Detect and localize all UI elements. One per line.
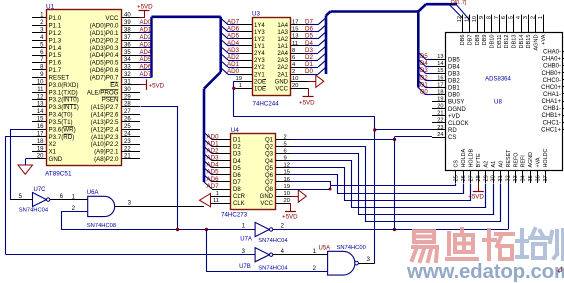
svg-text:SN74HC04: SN74HC04 — [19, 208, 49, 214]
svg-text:Q8: Q8 — [265, 187, 274, 193]
svg-text:D4: D4 — [233, 159, 241, 165]
svg-text:P3.3(INT1): P3.3(INT1) — [49, 104, 79, 111]
wire D1 to U8 — [426, 87, 433, 89]
U8 left pin 19 (^BUSY^) — [432, 101, 446, 103]
svg-text:6: 6 — [501, 16, 507, 19]
wire D2 to U8 — [426, 80, 433, 82]
svg-text:(A13)P2.5: (A13)P2.5 — [91, 119, 119, 126]
wire U1 P2.7 (A15) to decode gates — [141, 107, 178, 230]
bus vertical at U4 inputs — [203, 89, 206, 182]
svg-text:2OE: 2OE — [254, 79, 266, 85]
svg-text:(A11)P2.3: (A11)P2.3 — [91, 134, 119, 141]
svg-text:Q5: Q5 — [265, 166, 274, 172]
svg-text:2A1: 2A1 — [277, 72, 288, 78]
svg-text:5: 5 — [19, 194, 23, 200]
+5VD power symbol at U1 VCC pin 40 — [140, 17, 144, 19]
wire U4 Q5 to U8 bottom pin — [291, 168, 471, 201]
U8 top pin 11 (DB7) — [469, 15, 471, 33]
svg-text:DB0: DB0 — [448, 93, 460, 99]
svg-text:6: 6 — [40, 50, 44, 56]
U4 pin 3 (D1) — [212, 139, 231, 141]
wire U3 output D0 — [308, 74, 318, 76]
svg-text:10: 10 — [472, 16, 478, 22]
U8 bottom pin 28 (BYTE) — [478, 170, 480, 183]
junction A15 net / NAND input branch — [205, 228, 208, 231]
U1 pin 24 ((A11)P2.3) — [121, 136, 140, 138]
svg-text:1OE: 1OE — [254, 86, 266, 92]
U1 GND pin 20 wire — [26, 158, 33, 160]
U1 pin 1 (P1.0) — [32, 17, 46, 19]
svg-text:AD0: AD0 — [207, 133, 220, 140]
wire D3 to U8 — [426, 73, 433, 75]
svg-text:RESET: RESET — [506, 149, 512, 168]
svg-text:D4: D4 — [420, 61, 428, 67]
svg-text:AGND: AGND — [528, 152, 534, 168]
wire WR to U7C input — [10, 199, 33, 201]
svg-text:CHC1-: CHC1- — [543, 120, 561, 126]
junction Q1/CS — [393, 138, 396, 141]
bus entry AD6 (U4 input) — [204, 175, 212, 182]
bus entry AD7 (U4 input) — [204, 182, 212, 189]
svg-text:AD1: AD1 — [227, 61, 240, 68]
svg-text:DB15: DB15 — [526, 35, 532, 49]
U3 pin 19 (^2OE^) — [239, 81, 253, 83]
U8 top pin 6 (DB12) — [506, 15, 508, 33]
svg-text:D8: D8 — [233, 187, 241, 193]
svg-text:Q1: Q1 — [265, 138, 274, 144]
U8 top pin 2 (AGND) — [535, 15, 537, 33]
svg-text:6: 6 — [292, 55, 295, 61]
wire U4 Q7 to U8 bottom pin — [291, 182, 456, 186]
U3 pin 7 (2Y2) — [239, 67, 253, 69]
svg-text:GND: GND — [260, 194, 274, 200]
bus entry AD4 (U4 input) — [204, 161, 212, 168]
wire U7B output to U5A input 1 — [273, 254, 328, 256]
svg-text:2: 2 — [284, 134, 287, 140]
U8 bottom pin wires 29-31 going left — [445, 184, 486, 208]
svg-text:CLR: CLR — [233, 194, 246, 200]
svg-text:36: 36 — [124, 42, 131, 48]
wire U1 P0.3 net AD3 — [140, 47, 152, 49]
U1 pin 33 ((AD6)P0.6) — [121, 69, 140, 71]
wire U1 P0.2 net AD2 — [140, 40, 152, 42]
svg-text:DGND: DGND — [448, 107, 466, 113]
svg-text:10: 10 — [37, 80, 44, 86]
svg-text:23: 23 — [124, 139, 131, 145]
U8 right pin (CHB0+) — [563, 72, 564, 74]
U1 pin 12 (P3.2(^INT0^)) — [32, 99, 46, 101]
svg-text:AD3: AD3 — [140, 42, 152, 48]
U4 pin 2 (Q1) — [276, 139, 291, 141]
U3 pin 4 (2A2) — [290, 67, 308, 69]
svg-text:U3: U3 — [252, 11, 260, 18]
svg-text:A0: A0 — [498, 161, 504, 168]
bus D[0..7] corner diagonal — [326, 12, 331, 16]
svg-text:PSEN: PSEN — [102, 97, 119, 104]
svg-text:(AD1)P0.1: (AD1)P0.1 — [90, 30, 119, 37]
svg-text:9: 9 — [479, 16, 485, 19]
svg-text:9: 9 — [284, 156, 287, 162]
wire to U8 CS pin — [395, 136, 433, 138]
U8 bottom pin 27 (HOLDB) — [470, 170, 472, 183]
wire U3 output D3 — [308, 53, 318, 55]
wire D4 to U8 — [426, 66, 433, 68]
svg-text:HOLDB: HOLDB — [469, 149, 475, 168]
svg-text:21: 21 — [437, 111, 443, 117]
U8 left pin 14 (DB4) — [432, 66, 446, 68]
wire AD7 to U3 — [228, 24, 239, 26]
svg-text:(A12)P2.4: (A12)P2.4 — [91, 126, 119, 133]
U8 top pin 3 (DB15) — [528, 15, 530, 33]
svg-text:+5VD: +5VD — [299, 99, 315, 106]
bus entry D7 (U3 output) — [318, 18, 326, 25]
svg-text:17: 17 — [37, 131, 44, 137]
wire U3 output D5 — [308, 38, 318, 40]
U8 bottom pin 30 (A1) — [493, 170, 495, 183]
svg-text:11: 11 — [292, 41, 298, 47]
wire U7A output to U8 pin (RD A0 net) — [273, 229, 508, 231]
junction A15 net / P2.7 — [176, 228, 179, 231]
svg-text:+VD: +VD — [448, 114, 461, 120]
U1 pin 30 (ALE/^PROG^) — [121, 92, 140, 94]
svg-text:1A1: 1A1 — [277, 44, 288, 50]
svg-text:32: 32 — [506, 175, 512, 181]
U1 pin 8 (P1.7) — [32, 69, 46, 71]
+5VD power symbol at U8 pin 28 — [478, 183, 480, 192]
svg-text:40: 40 — [124, 13, 131, 19]
wire U1 P3.6 WR down-left — [11, 130, 33, 200]
inverter U7A 74HC04 — [255, 222, 269, 236]
svg-text:4: 4 — [516, 16, 522, 19]
svg-text:1Y3: 1Y3 — [254, 30, 265, 36]
bus entry AD5 (U3 input) — [221, 32, 228, 39]
svg-text:11: 11 — [37, 87, 44, 93]
bus entry AD5 (U4 input) — [204, 168, 212, 175]
bus entry D3 (U3 output) — [318, 46, 326, 53]
wire U3 output D6 — [308, 31, 318, 33]
svg-text:27: 27 — [468, 175, 474, 181]
U3 pin 10 (GND) — [290, 81, 308, 83]
svg-text:19: 19 — [284, 184, 290, 190]
U8 right pin (CHB0-) — [563, 65, 564, 67]
U8 bottom pin 31 (A0) — [500, 170, 502, 183]
svg-text:DB5: DB5 — [448, 57, 460, 63]
bus entry AD3 (U3 input) — [221, 47, 228, 54]
svg-text:(AD5)P0.5: (AD5)P0.5 — [90, 60, 119, 67]
svg-text:X1: X1 — [49, 149, 57, 156]
U8 bottom pin 29 (A2) — [485, 170, 487, 183]
U1 pin 2 (P1.1) — [32, 25, 46, 27]
svg-text:EA: EA — [110, 82, 119, 89]
U8 bottom pin 26 (HOLDA) — [463, 170, 465, 183]
wire U3 output enables 2OE/1OE tied — [234, 81, 239, 83]
U4 pin 1 (^CLR^) — [211, 196, 231, 198]
U4 pin 13 (D5) — [212, 167, 231, 169]
U8 right pin (CHA0-) — [563, 51, 564, 53]
svg-text:D6: D6 — [305, 26, 313, 33]
svg-text:P3.1(TXD): P3.1(TXD) — [49, 89, 78, 96]
U8 right pin (CHA0+) — [563, 58, 564, 60]
svg-text:1Y1: 1Y1 — [254, 44, 265, 50]
svg-text:3: 3 — [523, 16, 529, 19]
U3 pin 16 (1Y2) — [239, 38, 253, 40]
U1 pin 6 (P1.5) — [32, 55, 46, 57]
svg-text:Q3: Q3 — [265, 152, 274, 158]
wire U4 Q8 join — [291, 189, 331, 191]
svg-text:16: 16 — [284, 177, 290, 183]
svg-text:AD7: AD7 — [207, 183, 220, 190]
svg-text:D5: D5 — [305, 33, 313, 40]
bus entry D5 (U3 output) — [318, 32, 326, 39]
wire U5A output to RD net vertical — [358, 263, 374, 265]
svg-text:X2: X2 — [49, 141, 57, 148]
U8 right pin (CHB1+) — [563, 115, 564, 117]
svg-text:(A10)P2.2: (A10)P2.2 — [91, 141, 119, 148]
svg-text:AT89C51: AT89C51 — [45, 171, 72, 178]
wire CS net vertical — [394, 137, 396, 230]
watermark char xun (clipped) — [550, 230, 564, 259]
U4 pin 18 (D8) — [212, 189, 231, 191]
svg-text:P3.0(RXD): P3.0(RXD) — [49, 82, 79, 89]
U1 pin 40 (VCC) — [121, 17, 140, 19]
IC U3 74HC244 body — [253, 18, 291, 96]
U8 right pin (CHB1-) — [563, 108, 564, 110]
U4 pin 19 (Q8) — [276, 189, 291, 191]
svg-text:U6A: U6A — [87, 190, 99, 196]
wire up into U8 bottom pin 32 — [508, 183, 510, 230]
bus entry D3 (U8 side) — [418, 66, 425, 73]
wire bus to U8 DB7 top pin — [457, 5, 470, 20]
svg-text:18: 18 — [437, 90, 443, 96]
U1 pin 21 ((A8)P2.0) — [121, 158, 140, 160]
svg-text:1: 1 — [216, 191, 219, 197]
U8 bottom pin 33 (REFO) — [515, 170, 517, 183]
svg-text:15: 15 — [37, 117, 44, 123]
U1 pin 15 (P3.5(T1)) — [32, 121, 46, 123]
svg-text:10: 10 — [284, 191, 290, 197]
svg-text:2A3: 2A3 — [277, 58, 288, 64]
U8 bottom pin wires 25-27 going left — [445, 184, 456, 186]
svg-text:25: 25 — [454, 175, 460, 181]
junction RD net at U8 RD pin wire — [373, 128, 376, 131]
U1 pin 20 (GND) — [32, 158, 46, 160]
U3 pin 17 (1A4) — [290, 24, 308, 26]
svg-text:(A8)P2.0: (A8)P2.0 — [94, 156, 119, 163]
svg-text:D5: D5 — [233, 166, 241, 172]
U1 pin 31 (^EA^) — [121, 84, 140, 86]
svg-text:28: 28 — [476, 175, 482, 181]
svg-text:39: 39 — [124, 20, 131, 26]
svg-text:30: 30 — [491, 175, 497, 181]
svg-text:REFI: REFI — [521, 155, 527, 167]
svg-text:25: 25 — [124, 124, 131, 130]
U4 pin 10 (GND) — [276, 196, 291, 198]
U8 top pin 10 (DB8) — [477, 15, 479, 33]
svg-text:AGND: AGND — [534, 35, 540, 51]
U1 pin 37 ((AD2)P0.2) — [121, 40, 140, 42]
U1 pin 22 ((A9)P2.1) — [121, 151, 140, 153]
bus entry D0 (U3 output) — [318, 67, 326, 74]
U4 pin 7 (D3) — [212, 153, 231, 155]
svg-text:20: 20 — [292, 83, 298, 89]
bus entry AD7 (U3 input) — [221, 18, 228, 25]
svg-text:12: 12 — [284, 163, 290, 169]
svg-text:DB3: DB3 — [448, 71, 460, 77]
svg-text:15: 15 — [284, 170, 290, 176]
svg-text:DB12: DB12 — [504, 34, 510, 48]
U8 left pin 15 (DB3) — [432, 73, 446, 75]
U1 pin 9 (RESET) — [32, 77, 46, 79]
U8 top pin 1 (+VA) — [543, 15, 545, 33]
svg-text:CHC0+: CHC0+ — [541, 85, 561, 91]
wire bus to U8 DB6 top pin — [450, 5, 463, 18]
svg-text:16: 16 — [437, 75, 443, 81]
U4 pin 15 (Q6) — [276, 174, 291, 176]
bus AD[0..7] top horizontal run — [152, 15, 221, 18]
svg-text:AD0: AD0 — [140, 20, 152, 26]
svg-text:16: 16 — [37, 124, 44, 130]
bus diagonal toward U4 — [204, 72, 221, 89]
svg-text:P1.1: P1.1 — [49, 23, 62, 30]
wire U1 P0.0 net AD0 — [140, 25, 152, 27]
U3 pin 12 (1Y4) — [239, 24, 253, 26]
U1 pin 11 (P3.1(TXD)) — [32, 92, 46, 94]
svg-text:D3: D3 — [305, 47, 313, 54]
svg-text:ADS8364: ADS8364 — [485, 76, 511, 82]
svg-text:AD1: AD1 — [140, 28, 152, 34]
svg-text:U7B: U7B — [239, 264, 251, 270]
svg-text:DB1: DB1 — [448, 86, 460, 92]
svg-text:D4: D4 — [305, 40, 313, 47]
+5VD power symbol at U4 VCC — [290, 203, 292, 211]
svg-text:+5VD: +5VD — [282, 214, 298, 221]
U3 pin 20 (VCC) — [290, 88, 308, 90]
svg-text:31: 31 — [498, 175, 504, 181]
svg-text:+VA: +VA — [541, 34, 547, 45]
svg-text:(A9)P2.1: (A9)P2.1 — [94, 149, 119, 156]
U3 pin 13 (1A2) — [290, 38, 308, 40]
svg-text:DB8: DB8 — [475, 35, 481, 46]
U8 left pin 22 (CLOCK) — [432, 122, 446, 124]
svg-text:+5VD: +5VD — [468, 194, 484, 201]
U8 top pin 7 (DB11) — [499, 15, 501, 33]
U1 pin 5 (P1.4) — [32, 47, 46, 49]
svg-text:2Y4: 2Y4 — [254, 51, 265, 57]
wire D0 to U8 — [426, 94, 433, 96]
svg-text:11: 11 — [464, 16, 470, 22]
svg-text:P1.0: P1.0 — [49, 15, 62, 22]
bus D[0..7] horizontal run to U8 — [331, 10, 419, 13]
svg-text:ALE/PROG: ALE/PROG — [87, 89, 119, 96]
svg-text:Q7: Q7 — [265, 180, 274, 186]
svg-text:35: 35 — [124, 50, 131, 56]
port arrow at U3 GND — [308, 81, 316, 83]
svg-text:GND: GND — [275, 79, 289, 85]
svg-text:CHB1-: CHB1- — [543, 106, 561, 112]
wire U3 output D2 — [308, 60, 318, 62]
bus top segment at D[0..7] label — [426, 3, 457, 6]
wire AD4 to U3 — [228, 45, 239, 47]
svg-text:DB10: DB10 — [490, 35, 496, 49]
wire U4 Q2 to U8 bottom pin — [291, 147, 501, 222]
svg-text:DB9: DB9 — [482, 35, 488, 46]
U4 pin 4 (D2) — [212, 146, 231, 148]
svg-text:1A4: 1A4 — [277, 23, 288, 29]
svg-text:1: 1 — [239, 83, 242, 89]
svg-text:13: 13 — [292, 34, 298, 40]
svg-text:26: 26 — [124, 117, 131, 123]
svg-text:P1.7: P1.7 — [49, 67, 62, 74]
bus entry AD4 (U3 input) — [221, 39, 228, 46]
U8 left pin 17 (DB1) — [432, 87, 446, 89]
svg-text:20: 20 — [37, 154, 44, 160]
bus entry AD6 (U3 input) — [221, 25, 228, 32]
svg-text:18: 18 — [37, 139, 44, 145]
svg-text:P3.6(WR): P3.6(WR) — [49, 126, 76, 133]
bus entry D0 (U8 side) — [418, 88, 425, 95]
svg-text:P1.3: P1.3 — [49, 37, 62, 44]
svg-text:DB4: DB4 — [448, 64, 460, 70]
svg-text:A2: A2 — [484, 161, 490, 168]
wire AD6 to U3 — [228, 31, 239, 33]
bus entry AD2 (U3 input) — [221, 54, 228, 61]
svg-text:+VA: +VA — [536, 157, 542, 167]
svg-text:7: 7 — [494, 16, 500, 19]
svg-text:AD4: AD4 — [227, 40, 240, 47]
U1 pin 35 ((AD4)P0.4) — [121, 55, 140, 57]
svg-text:AD7: AD7 — [227, 19, 240, 26]
wire U7C output to U6A input 1 — [50, 199, 88, 201]
svg-text:3: 3 — [128, 200, 132, 206]
bus entry AD0 (U4 input) — [204, 133, 212, 140]
svg-text:AD1: AD1 — [207, 141, 220, 148]
IC U1 AT89C51 body — [47, 10, 122, 166]
U3 pin 3 (2Y4) — [239, 53, 253, 55]
svg-text:AD2: AD2 — [140, 35, 152, 41]
U8 left pin 21 (+VD) — [432, 115, 446, 117]
svg-text:2A2: 2A2 — [277, 65, 288, 71]
svg-text:Q6: Q6 — [265, 173, 274, 179]
svg-text:2: 2 — [281, 224, 285, 230]
svg-text:U5A: U5A — [319, 246, 331, 252]
svg-text:A1: A1 — [491, 161, 497, 168]
U8 right pin (CHC0-) — [563, 79, 564, 81]
port arrow at U4 CLR/CLK inputs — [200, 194, 211, 207]
port arrow at U4 GND — [291, 196, 299, 198]
U8 bottom pin 32 (RESET) — [508, 170, 510, 183]
U3 pin 18 (1Y1) — [239, 45, 253, 47]
U3 pin 2 (2A1) — [290, 74, 308, 76]
svg-text:(AD7)P0.7: (AD7)P0.7 — [90, 75, 119, 82]
watermark char di — [447, 229, 477, 259]
inverter U7B 74HC04 — [255, 248, 269, 262]
U1 pin 23 ((A10)P2.2) — [121, 144, 140, 146]
svg-text:3: 3 — [367, 257, 371, 263]
svg-text:+5VD: +5VD — [149, 82, 165, 89]
svg-text:DB7: DB7 — [467, 35, 473, 46]
+5VD power symbol at U1 EA pin 31 — [140, 84, 146, 86]
svg-text:P3.7(RD): P3.7(RD) — [49, 134, 75, 141]
svg-text:AD0: AD0 — [227, 68, 240, 75]
U3 pin 14 (1Y3) — [239, 31, 253, 33]
svg-text:CHB0+: CHB0+ — [541, 71, 561, 77]
U1 pin 26 ((A13)P2.5) — [121, 121, 140, 123]
U8 bottom pin 25 (CS) — [455, 170, 457, 183]
svg-text:U4: U4 — [231, 127, 239, 134]
svg-text:AD6: AD6 — [140, 65, 152, 71]
watermark char yi — [412, 231, 437, 261]
svg-text:U1: U1 — [46, 3, 55, 10]
